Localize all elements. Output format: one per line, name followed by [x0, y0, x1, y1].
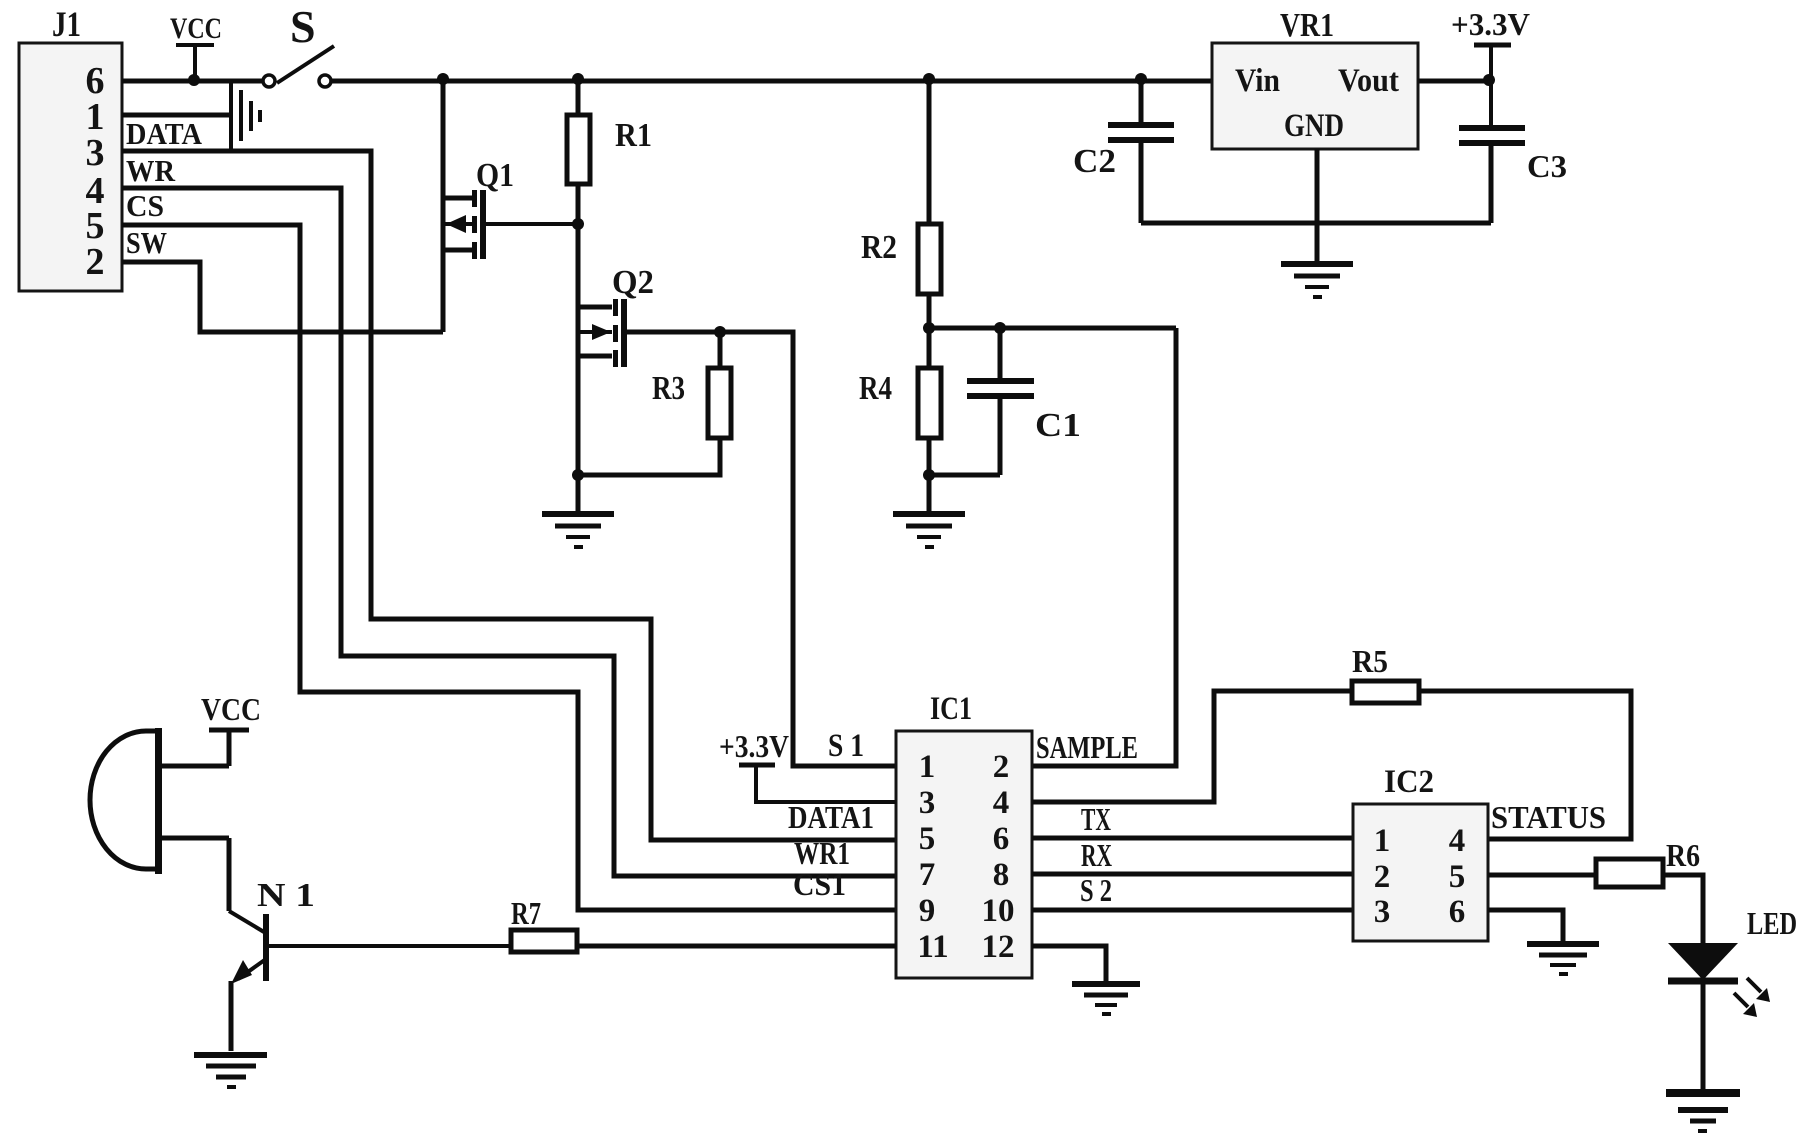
svg-text:Q2: Q2	[612, 264, 654, 301]
svg-text:DATA1: DATA1	[788, 799, 874, 835]
svg-text:S 2: S 2	[1080, 872, 1112, 908]
resistor R3	[578, 332, 731, 475]
wire WR net J1 pin4 to IC1 pin7	[122, 188, 896, 876]
transistor Q1	[443, 81, 578, 332]
wire VR1 Vout	[1418, 79, 1491, 84]
svg-text:2: 2	[86, 241, 105, 283]
svg-text:WR: WR	[126, 153, 176, 188]
svg-text:CS1: CS1	[793, 866, 846, 902]
svg-text:4: 4	[993, 785, 1010, 821]
capacitor C2	[1073, 81, 1174, 223]
svg-text:Vin: Vin	[1235, 63, 1280, 99]
svg-text:S 1: S 1	[828, 728, 864, 764]
svg-text:1: 1	[919, 749, 936, 785]
svg-text:11: 11	[917, 929, 948, 965]
resistor R4	[859, 328, 941, 475]
wire CS net J1 pin5 to IC1 pin9	[122, 225, 896, 910]
svg-text:TX: TX	[1081, 801, 1111, 837]
wire N1 collector to R7	[269, 944, 511, 948]
junction dot R4 bottom	[923, 469, 935, 481]
svg-text:+3.3V: +3.3V	[719, 728, 789, 764]
ground under N1	[194, 1055, 267, 1087]
wire SAMPLE net to IC1 pin2	[1032, 328, 1176, 766]
svg-text:DATA: DATA	[126, 116, 203, 151]
svg-text:2: 2	[1374, 859, 1391, 895]
svg-text:R5: R5	[1352, 643, 1388, 679]
junction dot Vout node	[1483, 74, 1495, 86]
wire S1 net Q2 gate to IC1 pin1	[627, 332, 896, 766]
svg-text:J1: J1	[52, 4, 81, 44]
svg-text:6: 6	[993, 821, 1010, 857]
junction dot Q2 source node	[572, 469, 584, 481]
svg-text:1: 1	[1374, 823, 1391, 859]
svg-text:R4: R4	[859, 370, 892, 407]
power +3.3V at IC1 pin3	[719, 728, 896, 802]
svg-text:R3: R3	[652, 370, 685, 407]
svg-text:R7: R7	[511, 895, 541, 931]
svg-text:C3: C3	[1527, 148, 1567, 184]
transistor N1	[229, 877, 315, 1051]
IC2 box	[1353, 764, 1488, 941]
svg-text:IC2: IC2	[1384, 764, 1434, 800]
switch S	[263, 1, 334, 87]
svg-text:VCC: VCC	[201, 691, 261, 727]
wire SW net J1 pin2 to Q1	[122, 262, 443, 332]
wire sample node horizontal	[929, 326, 1176, 331]
svg-text:3: 3	[919, 785, 936, 821]
resistor R5	[1352, 643, 1419, 703]
junction dot R2 bottom	[923, 322, 935, 334]
ground under VR1	[1281, 264, 1353, 297]
resistor R1	[567, 81, 652, 224]
wire RX net IC1 pin8 to IC2 pin2	[1032, 872, 1353, 877]
svg-text:6: 6	[1449, 894, 1466, 930]
wire J1 pin1 DATA stub	[122, 113, 231, 118]
resistor R2	[861, 81, 941, 328]
junction dot VCC on rail	[188, 74, 200, 86]
transistor Q2	[578, 264, 654, 367]
ground under IC2 pin6	[1527, 944, 1599, 974]
wire IC2 pin5 to R6	[1488, 873, 1596, 878]
ground under LED	[1666, 1093, 1740, 1131]
svg-text:+3.3V: +3.3V	[1451, 6, 1530, 42]
wire buzzer to N1 base	[227, 838, 232, 911]
wire R4 bottom to C1 bottom	[929, 473, 1000, 478]
wire IC1 pin12 to ground	[1032, 946, 1106, 981]
power +3.3V symbol top right	[1451, 6, 1530, 125]
battery BT1 symbol	[231, 83, 260, 151]
svg-text:3: 3	[86, 132, 105, 174]
wire R7 to IC1 pin11	[577, 944, 896, 949]
power VCC symbol at J1	[170, 12, 222, 81]
svg-text:GND: GND	[1284, 108, 1344, 144]
regulator VR1	[1212, 7, 1418, 149]
junction dot C1 top	[994, 322, 1006, 334]
svg-text:SW: SW	[126, 225, 167, 260]
resistor R7	[511, 895, 577, 952]
svg-text:4: 4	[1449, 823, 1466, 859]
svg-text:IC1: IC1	[930, 691, 972, 727]
ground under IC1 pin12	[1072, 984, 1140, 1014]
wire R6 to LED	[1663, 875, 1703, 943]
capacitor C1	[967, 328, 1081, 475]
svg-text:8: 8	[993, 857, 1010, 893]
svg-text:SAMPLE: SAMPLE	[1036, 729, 1138, 765]
svg-text:3: 3	[1374, 894, 1391, 930]
svg-text:12: 12	[982, 929, 1015, 965]
svg-text:VCC: VCC	[170, 12, 222, 45]
svg-text:R2: R2	[861, 229, 897, 266]
wire top supply rail	[332, 79, 1212, 84]
resistor R6	[1596, 837, 1700, 887]
svg-text:LED: LED	[1747, 905, 1797, 941]
svg-text:R6: R6	[1666, 837, 1700, 873]
capacitor C3	[1459, 128, 1567, 223]
svg-text:N 1: N 1	[257, 877, 315, 914]
power VCC symbol at buzzer	[201, 691, 261, 766]
svg-text:CS: CS	[126, 188, 164, 223]
IC1 box	[896, 691, 1032, 978]
svg-text:5: 5	[1449, 859, 1466, 895]
svg-text:C2: C2	[1073, 143, 1116, 180]
wire DATA net J1 pin3 to IC1 pin5	[122, 151, 896, 840]
svg-text:Vout: Vout	[1338, 63, 1399, 99]
buzzer HA1	[90, 728, 229, 874]
junction dot rail Q1	[437, 73, 449, 85]
svg-text:STATUS: STATUS	[1491, 799, 1606, 835]
svg-text:VR1: VR1	[1280, 7, 1334, 44]
wire VR1 GND pin	[1315, 149, 1320, 262]
junction dot rail C2	[1135, 73, 1147, 85]
svg-text:5: 5	[919, 821, 936, 857]
wire R5 to IC2 pin4 STATUS	[1419, 691, 1631, 839]
svg-text:Q1: Q1	[476, 157, 514, 194]
svg-text:7: 7	[919, 857, 936, 893]
LED D1	[1668, 905, 1797, 1089]
svg-text:10: 10	[982, 893, 1015, 929]
junction dot Q1 gate node	[572, 218, 584, 230]
wire TX net IC1 pin6 to IC2 pin1	[1032, 836, 1353, 841]
junction dot rail R2	[923, 73, 935, 85]
wire J1 pin6 to switch	[122, 79, 264, 84]
connector J1 box	[19, 4, 122, 291]
ground under Q2	[542, 475, 614, 547]
svg-text:2: 2	[993, 749, 1010, 785]
ground under R4	[893, 475, 965, 547]
svg-text:9: 9	[919, 893, 936, 929]
junction dot rail R1	[572, 73, 584, 85]
svg-text:S: S	[290, 1, 316, 52]
svg-text:RX: RX	[1081, 837, 1112, 873]
junction dot R3 top	[714, 326, 726, 338]
wire ground net C2 to C3	[1141, 221, 1491, 226]
wire IC2 pin6 to ground	[1488, 910, 1563, 941]
wire IC1 pin4 to R5	[1032, 691, 1352, 802]
wire R1 bottom to Q2 and ground	[576, 224, 581, 475]
svg-text:C1: C1	[1035, 407, 1081, 444]
wire S2 net IC1 pin10 to IC2 pin3	[1032, 908, 1353, 913]
svg-text:R1: R1	[615, 117, 652, 154]
